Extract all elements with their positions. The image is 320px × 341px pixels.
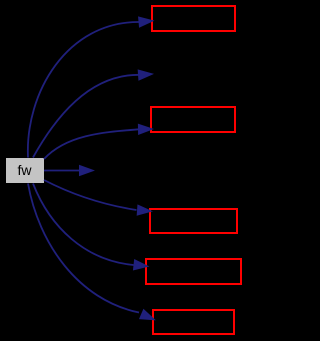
- node box4: [146, 259, 241, 284]
- node box5: [153, 310, 234, 334]
- node box1: [152, 6, 235, 31]
- edge fw to box1: [28, 17, 153, 158]
- edge fw to box2: [44, 124, 153, 159]
- edge fw to box3: [44, 180, 152, 215]
- node box2: [151, 107, 235, 132]
- edge fw to box4: [33, 184, 148, 270]
- node fw: [6, 158, 44, 183]
- edge fw to hidden node2: [33, 70, 153, 158]
- svg-text:fw: fw: [18, 162, 33, 178]
- node box3: [150, 209, 237, 233]
- edge fw to hidden node4: [44, 166, 94, 176]
- edge fw to box5: [28, 184, 155, 320]
